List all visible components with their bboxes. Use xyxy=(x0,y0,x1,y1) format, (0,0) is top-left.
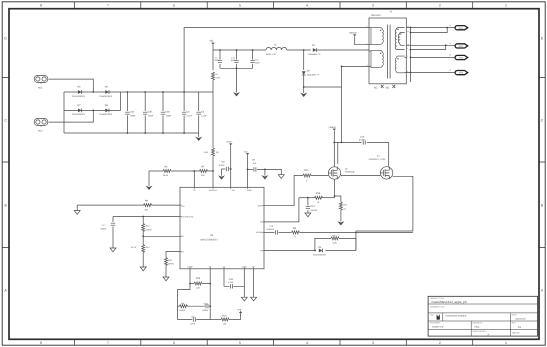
svg-text:0: 0 xyxy=(295,235,297,238)
svg-text:VO4: VO4 xyxy=(459,72,464,75)
svg-text:AC1: AC1 xyxy=(38,86,43,89)
diode D6 xyxy=(105,90,109,94)
ground C9 xyxy=(264,169,266,175)
transformer T1 box xyxy=(369,18,406,84)
svg-text:VCC: VCC xyxy=(244,150,249,153)
ground R18 xyxy=(140,267,146,271)
wire divider to CS pin xyxy=(193,171,195,187)
svg-text:10UF: 10UF xyxy=(255,61,261,64)
svg-text:NC: NC xyxy=(374,87,378,90)
wire output 1 return xyxy=(411,28,448,33)
svg-text:EN/UVLO: EN/UVLO xyxy=(209,189,217,192)
junction C36 xyxy=(162,91,164,93)
svg-text:470PF: 470PF xyxy=(219,164,226,167)
junction C35 xyxy=(144,91,146,93)
svg-text:10UF: 10UF xyxy=(231,59,237,62)
capacitor C16 xyxy=(224,285,244,287)
svg-text:68NF: 68NF xyxy=(166,115,172,118)
capacitor C14 xyxy=(276,230,278,234)
svg-text:1: 1 xyxy=(367,25,368,28)
connector J2 xyxy=(455,44,468,48)
svg-text:VIN: VIN xyxy=(210,40,214,43)
svg-text:1000PF: 1000PF xyxy=(310,209,318,212)
svg-text:RT: RT xyxy=(182,235,185,238)
diode D7 xyxy=(78,109,82,113)
capacitor C4 xyxy=(177,319,210,321)
transistor Q1 xyxy=(380,167,392,179)
svg-text:R15: R15 xyxy=(196,277,201,280)
wire EP stub xyxy=(253,269,255,297)
svg-text:SS: SS xyxy=(223,265,226,268)
svg-text:4.3K: 4.3K xyxy=(333,241,338,244)
svg-text:S1M/DIODES: S1M/DIODES xyxy=(72,113,85,116)
svg-text:B: B xyxy=(541,204,544,208)
svg-text:J1: J1 xyxy=(449,24,451,27)
capacitor C34 xyxy=(126,92,128,133)
diode D8 xyxy=(105,109,109,113)
svg-text:R16: R16 xyxy=(316,192,321,195)
svg-text:1UF: 1UF xyxy=(253,162,258,165)
svg-text:OPEN: OPEN xyxy=(180,309,186,312)
junction VIN rail xyxy=(219,49,221,51)
svg-text:C12: C12 xyxy=(255,58,260,61)
svg-text:4.7: 4.7 xyxy=(344,207,348,210)
wire VIN down xyxy=(212,45,214,70)
svg-text:J4: J4 xyxy=(449,69,451,72)
wire drain parallel stub xyxy=(337,142,339,164)
svg-text:68NF: 68NF xyxy=(131,115,137,118)
svg-text:1N4148W-7-F: 1N4148W-7-F xyxy=(308,53,321,56)
wire DC- rail xyxy=(64,132,199,134)
ground VIN caps xyxy=(236,68,238,92)
svg-text:VDRV: VDRV xyxy=(226,141,232,144)
svg-text:OVI: OVI xyxy=(182,205,186,208)
transformer primary winding 1 xyxy=(371,28,383,45)
ground R20 xyxy=(163,277,169,281)
capacitor C3 xyxy=(198,92,200,133)
capacitor C35 xyxy=(144,92,146,133)
wire dither rail xyxy=(113,216,180,218)
svg-text:C3: C3 xyxy=(201,110,205,113)
svg-text:D6: D6 xyxy=(105,86,109,89)
wire top link to primary1 xyxy=(184,28,369,92)
svg-text:2: 2 xyxy=(439,4,441,8)
svg-text:30K: 30K xyxy=(145,208,149,211)
svg-text:8: 8 xyxy=(40,4,42,8)
wire DC+ rail xyxy=(121,91,213,93)
wire CS filter rail xyxy=(299,197,315,199)
ground C13 open xyxy=(305,213,311,217)
wire snubber cap rail xyxy=(334,141,388,143)
svg-text:S1M/DIODES: S1M/DIODES xyxy=(313,253,326,256)
resistor R7 xyxy=(200,170,208,173)
svg-text:R12: R12 xyxy=(304,169,309,172)
wire output 1 xyxy=(406,27,456,29)
svg-text:T1: T1 xyxy=(390,10,393,13)
svg-text:06/16/2020: 06/16/2020 xyxy=(516,318,527,321)
resistor R12 xyxy=(303,174,311,177)
svg-text:10UF: 10UF xyxy=(214,59,220,62)
svg-text:9: 9 xyxy=(407,47,408,50)
svg-text:SGND: SGND xyxy=(242,265,248,268)
svg-text:7: 7 xyxy=(407,55,408,58)
svg-text:4: 4 xyxy=(306,4,308,8)
U1 pin names bottom xyxy=(187,265,255,268)
wire L1 to D1 xyxy=(287,49,311,51)
connector J4 xyxy=(455,71,468,75)
resistor R21 xyxy=(339,202,342,210)
wire output 2 return xyxy=(411,45,446,49)
svg-text:43K: 43K xyxy=(196,287,200,290)
svg-text:470PF: 470PF xyxy=(359,139,366,142)
svg-text:8: 8 xyxy=(40,341,42,345)
wire VCC down xyxy=(247,155,249,187)
capacitor C19 xyxy=(187,305,210,307)
resistor R20 xyxy=(165,258,168,266)
svg-text:C17: C17 xyxy=(102,224,107,227)
svg-text:CS: CS xyxy=(193,189,196,192)
svg-text:P3: P3 xyxy=(518,326,522,329)
capacitor C9 xyxy=(248,168,265,170)
svg-text:2.2UF: 2.2UF xyxy=(201,115,207,118)
wire Qb source loop xyxy=(356,176,413,231)
capacitor C36 xyxy=(162,92,164,133)
resistor R1 xyxy=(212,72,215,80)
svg-text:C9: C9 xyxy=(252,159,256,162)
svg-text:A: A xyxy=(4,289,7,293)
wire cap bracket xyxy=(220,67,253,69)
wire output 3 xyxy=(411,56,457,58)
wire ACOMP route xyxy=(264,231,275,233)
wire VDRV down xyxy=(230,145,232,187)
junction drain bus xyxy=(341,142,343,144)
svg-text:HW:: HW: xyxy=(430,314,434,317)
svg-text:10K: 10K xyxy=(223,323,227,326)
svg-text:C1: C1 xyxy=(215,56,218,59)
svg-text:OPEN: OPEN xyxy=(146,228,152,231)
svg-text:R13: R13 xyxy=(146,225,151,228)
wire AC1 to bridge xyxy=(49,79,94,92)
svg-text:OPEN: OPEN xyxy=(202,309,208,312)
svg-text:3: 3 xyxy=(372,341,374,345)
svg-text:3: 3 xyxy=(372,4,374,8)
wire gate rail xyxy=(311,175,380,177)
capacitor C12A xyxy=(252,50,254,68)
svg-text:1K: 1K xyxy=(317,201,320,204)
svg-text:D4: D4 xyxy=(318,246,322,249)
svg-text:D1: D1 xyxy=(312,44,316,47)
transformer secondary winding 1 outer xyxy=(395,28,404,50)
wire NDRV route xyxy=(264,176,303,206)
svg-text:7: 7 xyxy=(107,4,109,8)
svg-text:R21: R21 xyxy=(344,204,349,207)
wire RT stub xyxy=(209,269,211,320)
svg-text:VO1: VO1 xyxy=(459,27,464,30)
svg-text:D8: D8 xyxy=(105,104,109,107)
svg-text:J3: J3 xyxy=(449,54,451,57)
svg-text:DITHER/SYNC: DITHER/SYNC xyxy=(182,215,195,218)
frame tick marks bottom xyxy=(74,339,472,345)
transformer pin numbers xyxy=(367,25,410,73)
U1 pin stubs xyxy=(180,187,264,268)
wire divider rail xyxy=(149,170,213,172)
resistor R16 xyxy=(315,196,323,199)
svg-text:C36: C36 xyxy=(165,110,170,113)
junction bridge AC2 xyxy=(92,110,94,112)
junction snubber bottom xyxy=(303,86,305,88)
resistor R18 xyxy=(142,236,144,244)
svg-text:C8: C8 xyxy=(222,161,226,164)
svg-text:S1M/DIODES: S1M/DIODES xyxy=(72,95,85,98)
svg-text:2.2UF: 2.2UF xyxy=(187,115,193,118)
wire drain bus xyxy=(341,87,343,142)
connector AC2 xyxy=(34,119,48,127)
svg-text:1: 1 xyxy=(505,341,507,345)
junction snubber xyxy=(303,49,305,51)
diode D5 xyxy=(78,90,82,94)
junction bridge AC1 xyxy=(92,91,94,93)
svg-text:C4: C4 xyxy=(192,315,196,318)
svg-text:4: 4 xyxy=(367,64,368,67)
wire COMP chain xyxy=(177,284,190,320)
resistor R24 xyxy=(210,319,221,321)
svg-text:C35: C35 xyxy=(148,110,153,113)
svg-text:D5: D5 xyxy=(78,86,82,89)
transformer pin stubs right xyxy=(405,57,407,72)
wire bridge left leg xyxy=(63,92,65,133)
svg-text:S1M/DIODES: S1M/DIODES xyxy=(99,95,112,98)
svg-text:26.7K: 26.7K xyxy=(131,246,137,249)
svg-text:Q1: Q1 xyxy=(377,154,381,157)
svg-text:R5: R5 xyxy=(216,151,219,154)
resistor R9 xyxy=(77,204,180,206)
svg-text:SUBMITTED:: SUBMITTED: xyxy=(432,326,445,329)
svg-text:2: 2 xyxy=(439,341,441,345)
node VFB xyxy=(240,313,242,320)
wire output 2 xyxy=(406,44,456,46)
resistor R13 xyxy=(142,217,144,224)
resistor R8 xyxy=(292,231,300,234)
connector J1 xyxy=(455,26,468,30)
junction source sense xyxy=(334,195,336,197)
svg-text:R24: R24 xyxy=(222,314,227,317)
wire D1 to transformer xyxy=(317,49,370,51)
wire FB pin rail xyxy=(264,250,356,252)
svg-text:Q2: Q2 xyxy=(345,168,349,171)
svg-text:VO3: VO3 xyxy=(459,57,464,60)
capacitor C17 xyxy=(112,217,114,249)
svg-text:C34: C34 xyxy=(130,110,135,113)
svg-text:D: D xyxy=(541,37,544,41)
svg-text:1: 1 xyxy=(505,4,507,8)
svg-text:SS: SS xyxy=(182,250,185,253)
junction C2 xyxy=(183,91,185,93)
svg-text:7: 7 xyxy=(107,341,109,345)
svg-text:MAY-16: MAY-16 xyxy=(513,332,521,335)
svg-text:68UH-1.2A: 68UH-1.2A xyxy=(266,53,277,56)
transformer secondary winding 1 inner xyxy=(398,33,404,46)
wire VINBUS down xyxy=(333,131,335,167)
inductor L1 xyxy=(266,47,287,50)
svg-text:REV:: REV: xyxy=(512,322,517,325)
svg-text:0: 0 xyxy=(306,179,308,182)
svg-text:30K: 30K xyxy=(201,174,205,177)
transformer pin stubs left xyxy=(369,28,371,67)
title block dividers xyxy=(428,304,537,330)
junction C34 top xyxy=(127,91,129,93)
svg-text:VDRV: VDRV xyxy=(247,189,253,192)
wire RT pin xyxy=(143,235,180,237)
capacitor C10 xyxy=(363,140,365,144)
svg-text:C10: C10 xyxy=(360,135,365,138)
diode D4 xyxy=(319,249,323,253)
diode D2 xyxy=(303,50,305,70)
svg-text:1N4148W-7-F: 1N4148W-7-F xyxy=(307,74,320,77)
ground EP xyxy=(251,297,257,301)
frame tick marks right xyxy=(539,78,545,248)
svg-text:D: D xyxy=(4,37,7,41)
svg-text:5: 5 xyxy=(239,341,241,345)
svg-text:C19: C19 xyxy=(204,302,209,305)
svg-text:6: 6 xyxy=(173,4,175,8)
wire source to R21 xyxy=(335,196,341,202)
ground R9 xyxy=(76,205,78,210)
junction bus taps xyxy=(410,27,412,29)
wire COMP stub xyxy=(189,269,191,284)
svg-text:VBMON: VBMON xyxy=(349,32,357,35)
svg-text:1.2M: 1.2M xyxy=(204,151,209,154)
svg-text:R9: R9 xyxy=(145,200,149,203)
ground R21 xyxy=(340,210,342,222)
wire SS pin left xyxy=(166,252,180,258)
ground C17 xyxy=(110,248,116,252)
svg-text:EP: EP xyxy=(252,265,255,268)
wire SS stub xyxy=(223,269,225,287)
ground C8 xyxy=(221,169,223,176)
svg-text:3: 3 xyxy=(367,49,368,52)
svg-text:0.1UF: 0.1UF xyxy=(228,281,234,284)
capacitor C11 xyxy=(236,50,238,68)
wire Qb drain xyxy=(388,142,390,166)
svg-text:68NF: 68NF xyxy=(148,115,154,118)
wire bus to R5 xyxy=(212,92,214,148)
svg-text:CS: CS xyxy=(260,221,263,224)
svg-text:C16: C16 xyxy=(229,278,234,281)
svg-text:D7: D7 xyxy=(78,104,82,107)
svg-text:C: C xyxy=(4,119,7,123)
svg-text:6: 6 xyxy=(173,341,175,345)
svg-text:COMP: COMP xyxy=(187,265,193,268)
svg-text:S1M/DIODES: S1M/DIODES xyxy=(99,113,112,116)
svg-text:FDN86246: FDN86246 xyxy=(345,171,356,174)
svg-text:maxrefdes1312_appe_p3: maxrefdes1312_appe_p3 xyxy=(432,300,467,304)
ground snubber xyxy=(303,87,305,93)
svg-text:TEMPLATE REV:: TEMPLATE REV: xyxy=(472,330,486,333)
op-amp U1 MAX17596 box xyxy=(180,187,264,268)
resistor R14 xyxy=(315,238,356,250)
svg-text:0.047UF: 0.047UF xyxy=(267,228,275,231)
svg-text:2.2M: 2.2M xyxy=(216,77,221,80)
svg-text:NDRV: NDRV xyxy=(257,205,263,208)
ground SGND xyxy=(241,297,247,301)
svg-text:5: 5 xyxy=(239,4,241,8)
wire SGND stub xyxy=(243,269,245,297)
svg-text:RT: RT xyxy=(209,265,212,268)
svg-text:C13: C13 xyxy=(310,205,315,208)
wire VIN rail xyxy=(213,49,266,51)
resistor R5 xyxy=(212,148,215,156)
svg-text:VO2: VO2 xyxy=(459,45,464,48)
svg-text:C11: C11 xyxy=(231,56,235,59)
title block outline xyxy=(428,296,537,336)
svg-text:VIN: VIN xyxy=(232,189,236,192)
svg-text:U1: U1 xyxy=(210,234,214,237)
svg-text:SI2320DS-T1-GE3: SI2320DS-T1-GE3 xyxy=(369,158,387,161)
svg-text:R4: R4 xyxy=(165,165,169,168)
wire secondary return bus xyxy=(410,27,412,83)
wire bridge row1 xyxy=(64,91,121,93)
U1 pin names left xyxy=(182,205,195,254)
wire AC2 to bridge xyxy=(49,110,94,122)
svg-text:C2: C2 xyxy=(187,110,191,113)
U1 pin names right xyxy=(256,205,263,253)
svg-text:MAX17596ATE+: MAX17596ATE+ xyxy=(201,239,219,242)
svg-text:R20: R20 xyxy=(168,259,173,262)
svg-text:R8: R8 xyxy=(293,227,297,230)
svg-text:D2: D2 xyxy=(307,70,311,73)
ground input bank xyxy=(198,133,200,137)
svg-text:ENGINEER:: ENGINEER: xyxy=(430,322,440,325)
wire VBMON to primary1 bottom xyxy=(355,36,369,44)
transformer secondary winding 2 xyxy=(395,56,405,73)
resistor R15 xyxy=(190,283,194,285)
ground divider xyxy=(148,171,150,186)
transformer core xyxy=(388,25,391,79)
svg-text:-: - xyxy=(446,319,447,321)
svg-text:VFB: VFB xyxy=(237,308,242,311)
wire R5 to EN pin xyxy=(212,156,214,187)
svg-text:R7: R7 xyxy=(202,165,206,168)
svg-text:11: 11 xyxy=(407,30,409,33)
U1 pin names top xyxy=(193,189,253,192)
svg-text:DBay: DBay xyxy=(475,326,480,329)
ground open ext xyxy=(278,175,284,179)
wire CS pin route xyxy=(264,198,299,222)
svg-text:OPEN: OPEN xyxy=(101,228,107,231)
svg-text:B: B xyxy=(4,204,7,208)
svg-text:J2: J2 xyxy=(449,42,451,45)
svg-text:NC: NC xyxy=(386,87,390,90)
TITLE BLOCK xyxy=(428,296,537,336)
connector J3 xyxy=(455,55,468,59)
capacitor C13 xyxy=(307,198,309,213)
svg-text:24.9K: 24.9K xyxy=(163,174,169,177)
svg-text:C: C xyxy=(541,119,544,123)
svg-text:A: A xyxy=(541,289,544,293)
wire bridge right leg xyxy=(120,92,122,110)
svg-text:C14: C14 xyxy=(270,225,275,228)
svg-text:DRAWING TITLE:: DRAWING TITLE: xyxy=(430,306,445,309)
svg-text:AC2: AC2 xyxy=(38,129,43,132)
svg-text:OPEN: OPEN xyxy=(168,262,174,265)
svg-text:ACOMP: ACOMP xyxy=(256,231,263,234)
wire Qa source xyxy=(334,179,336,198)
wire output 4 xyxy=(406,71,456,73)
svg-text:R1: R1 xyxy=(216,73,219,76)
svg-text:L1: L1 xyxy=(274,44,277,47)
capacitor C8 xyxy=(222,168,231,170)
svg-text:DRAWN BY:: DRAWN BY: xyxy=(472,322,483,325)
